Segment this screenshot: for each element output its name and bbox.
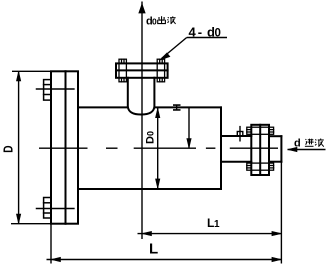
leader d inlet — [288, 147, 326, 151]
svg-text:4: 4 — [189, 25, 197, 40]
flow arrow up (outlet) — [139, 4, 145, 13]
svg-text:D: D — [145, 136, 157, 144]
glyph ye (liquid) — [167, 16, 175, 24]
dimension L line — [47, 257, 282, 261]
svg-text:H: H — [172, 104, 184, 112]
svg-text:-: - — [198, 25, 202, 40]
glyph chu (out) — [158, 16, 166, 23]
L right extension line — [280, 162, 282, 264]
dimension D0 line — [156, 107, 160, 189]
text d0 outlet label — [146, 16, 157, 28]
vertical nozzle centerline — [141, 2, 143, 240]
dimension L1 line — [138, 231, 282, 235]
top flange left bolt — [119, 59, 126, 82]
right nozzle pipe — [221, 136, 281, 162]
text 4-d0 bolt holes label — [189, 25, 221, 40]
L left extension line — [50, 224, 52, 264]
D extension bottom — [11, 223, 51, 225]
text L1 — [207, 216, 220, 230]
svg-text:0: 0 — [215, 28, 221, 40]
svg-text:0: 0 — [146, 131, 156, 136]
svg-text:1: 1 — [214, 219, 220, 230]
top flange right bolt — [157, 59, 164, 82]
svg-text:0: 0 — [152, 17, 157, 27]
text D0 rotated — [145, 131, 157, 144]
right nozzle flange pair — [251, 125, 269, 175]
horizontal centerline — [39, 147, 278, 149]
D extension top — [12, 70, 51, 72]
leader 4-d0 — [160, 38, 227, 61]
svg-text:d: d — [294, 138, 301, 150]
glyph jin (enter) — [305, 139, 314, 147]
vessel shell body — [78, 107, 221, 189]
left flange top bolt stud — [37, 80, 74, 101]
small plug boss on right pipe — [237, 127, 243, 141]
top nozzle flange pair — [116, 63, 168, 77]
svg-text:L: L — [149, 241, 158, 258]
dimension H line — [187, 107, 191, 148]
top nozzle pipe with dished bottom — [128, 78, 155, 115]
right flange bottom bolt — [247, 163, 274, 170]
left flange bottom bolt stud — [37, 198, 74, 219]
right flange top bolt — [247, 127, 274, 134]
dimension D line — [16, 71, 20, 223]
glyph ye (liquid) right — [315, 138, 324, 146]
left flange plate pair — [51, 71, 78, 223]
svg-text:D: D — [1, 145, 15, 152]
